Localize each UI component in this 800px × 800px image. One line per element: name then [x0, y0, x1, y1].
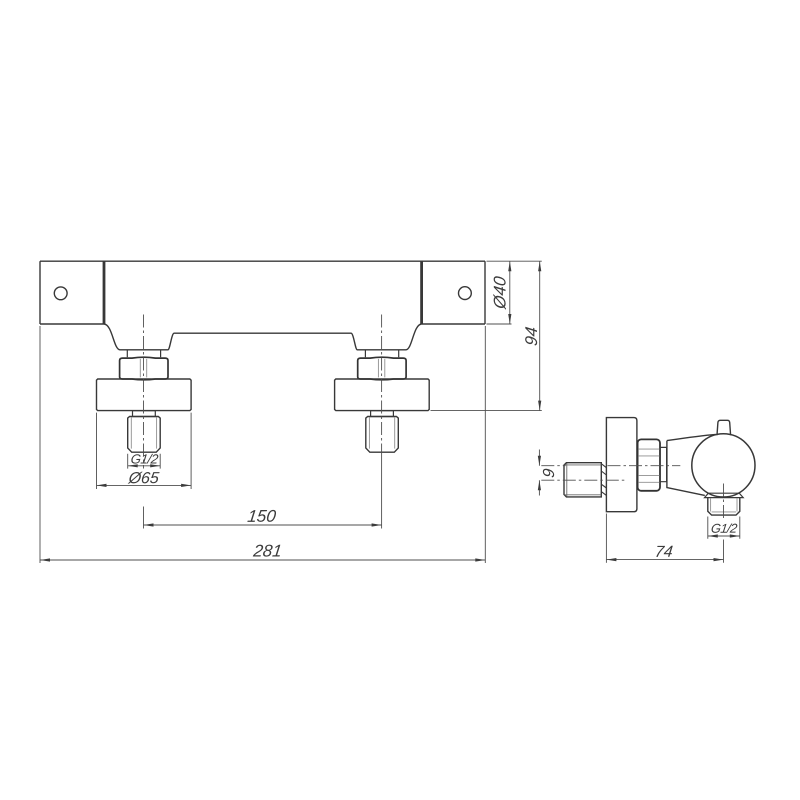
svg-text:G1/2: G1/2 [130, 452, 160, 467]
150 dim arrows [144, 523, 382, 526]
right centerline [381, 315, 383, 453]
taper lines fitting to escutcheon [601, 464, 606, 496]
dia40 dim arrows [508, 261, 511, 324]
281 extension lines [40, 326, 485, 563]
side wall fitting [564, 463, 601, 497]
dia40 top extension [487, 260, 542, 262]
wall bar top edge [40, 260, 485, 262]
wall bar left edge [39, 261, 41, 324]
outlet fitting [128, 417, 161, 453]
side hex nut [638, 439, 660, 490]
G1/2 extension lines (front) [128, 454, 161, 469]
dia40 dimension line [509, 261, 511, 324]
281 dim arrows [40, 558, 485, 561]
bottom outlet fitting [708, 498, 740, 515]
9 dim arrows [538, 456, 541, 491]
outlet thread lines [711, 498, 737, 512]
side escutcheon plate [606, 418, 637, 512]
eccentric fitting axis centerline [541, 479, 626, 481]
wall bar right edge [484, 261, 486, 324]
outlet axis centerline [723, 484, 725, 520]
bar bottom profile [104, 324, 422, 350]
dia65 dimension line [97, 484, 192, 486]
svg-text:9: 9 [540, 468, 558, 479]
svg-text:150: 150 [246, 507, 277, 526]
G1/2 side dimension line [708, 535, 740, 537]
94 dim arrows [538, 261, 541, 410]
right tab bottom edge [422, 323, 485, 325]
svg-text:74: 74 [654, 543, 674, 561]
74 dim arrows [606, 558, 723, 561]
top stub [717, 420, 731, 435]
9 dimension line [538, 450, 540, 496]
right connector assembly (mirror of left) [335, 350, 430, 452]
hex nut [120, 357, 168, 380]
right mounting hole [459, 287, 472, 300]
150 left extension [143, 507, 145, 529]
svg-text:Ø65: Ø65 [127, 469, 160, 487]
svg-text:Ø40: Ø40 [491, 275, 510, 311]
bottom collar [705, 493, 744, 497]
74 dimension line [606, 559, 723, 561]
fitting thread lines [131, 417, 156, 449]
escutcheon flange [97, 379, 192, 411]
left mounting hole [54, 287, 67, 300]
side hex nut facet arcs [638, 449, 659, 482]
G1/2 dimension line (front) [128, 465, 161, 467]
left tab thick edge [103, 261, 106, 324]
svg-text:281: 281 [251, 542, 283, 561]
collar under bar [127, 350, 160, 357]
lower collar [133, 411, 156, 417]
valve body [667, 434, 716, 495]
left tab bottom edge [40, 323, 104, 325]
dia65 extension lines [97, 413, 192, 489]
dia40 bottom extension [487, 323, 512, 325]
neck between nut and body [660, 447, 667, 481]
left centerline [143, 315, 145, 469]
281 dimension line [40, 559, 485, 561]
svg-text:94: 94 [522, 326, 541, 347]
74 right extension [723, 540, 725, 563]
side wall fitting inner lines [565, 463, 602, 497]
union axis centerline [541, 465, 680, 467]
svg-text:G1/2: G1/2 [710, 521, 738, 536]
150 dimension line [144, 524, 382, 526]
94 bottom extension [431, 410, 542, 412]
G1/2 side dim arrows [708, 534, 740, 537]
G1/2 side extension lines [708, 517, 740, 539]
74 left extension [605, 514, 607, 563]
hex nut facet lines [140, 359, 146, 378]
left connector assembly [97, 350, 192, 452]
dia65 dim arrows [97, 484, 192, 487]
right tab thick edge [420, 261, 423, 324]
94 dimension line [539, 261, 541, 410]
G1/2 dim arrows (front) [128, 464, 161, 467]
knob circle [692, 434, 755, 497]
